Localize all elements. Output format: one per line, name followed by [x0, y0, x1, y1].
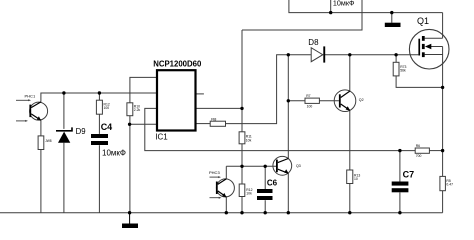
- svg-text:D8: D8: [308, 38, 319, 47]
- svg-text:C4: C4: [101, 122, 113, 132]
- svg-text:100: 100: [104, 106, 110, 110]
- svg-text:Q1: Q1: [417, 16, 429, 26]
- svg-text:IC1: IC1: [155, 133, 168, 142]
- svg-text:56k: 56k: [400, 69, 406, 73]
- svg-text:10: 10: [354, 177, 358, 181]
- svg-text:PHC3: PHC3: [209, 170, 220, 175]
- svg-text:JW8: JW8: [45, 139, 52, 143]
- svg-text:10k: 10k: [246, 138, 252, 142]
- svg-text:10k: 10k: [246, 192, 252, 196]
- svg-text:2.2k: 2.2k: [134, 108, 141, 112]
- svg-text:R6: R6: [416, 144, 420, 148]
- svg-text:C7: C7: [403, 169, 415, 179]
- svg-text:10мкФ: 10мкФ: [333, 0, 355, 7]
- svg-text:0.47: 0.47: [446, 183, 453, 187]
- svg-text:R8: R8: [211, 116, 217, 121]
- svg-text:Q2: Q2: [359, 98, 364, 102]
- svg-text:R7: R7: [306, 94, 310, 98]
- svg-text:D9: D9: [76, 127, 86, 136]
- svg-text:700: 700: [416, 154, 422, 158]
- svg-text:PHC1: PHC1: [25, 93, 36, 98]
- svg-text:C6: C6: [267, 178, 278, 187]
- svg-text:NCP1200D60: NCP1200D60: [153, 60, 202, 69]
- svg-text:10мкФ: 10мкФ: [102, 149, 126, 158]
- svg-text:Q3: Q3: [296, 164, 301, 168]
- svg-text:100: 100: [307, 105, 313, 109]
